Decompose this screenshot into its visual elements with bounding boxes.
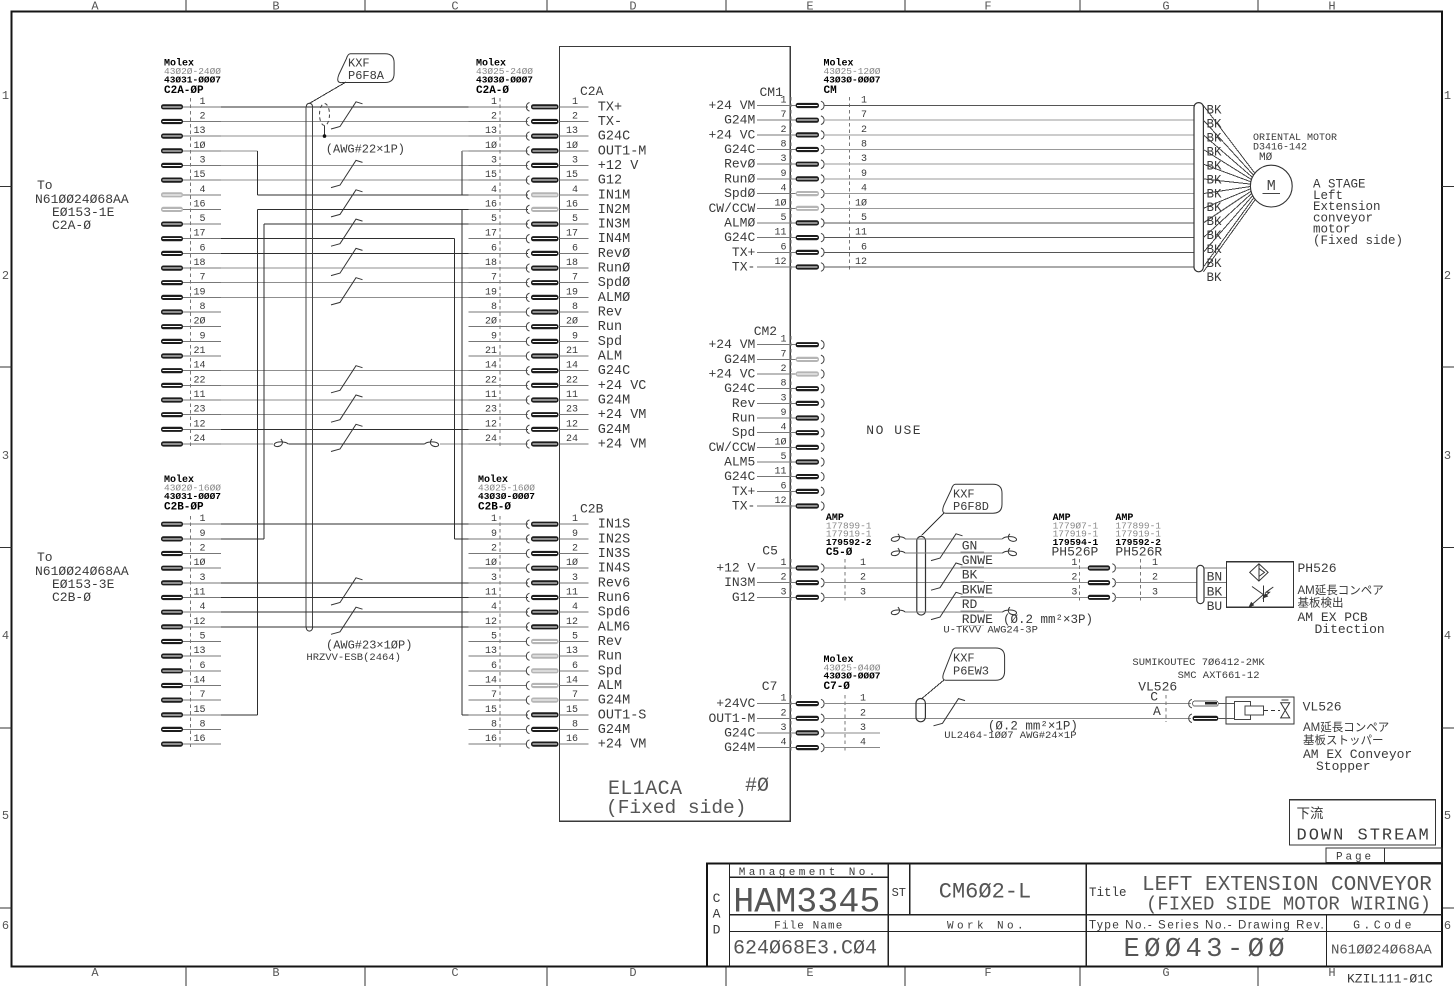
- svg-text:11: 11: [774, 228, 786, 239]
- wire C2A pin 12: [221, 428, 528, 430]
- svg-text:24: 24: [193, 434, 205, 445]
- connector CM2 pin 9 contact: [796, 415, 819, 420]
- svg-text:1: 1: [572, 514, 578, 525]
- wire C2A pin 10 with detour: [221, 150, 257, 152]
- wire stub C2B-0P pin 10: [183, 567, 221, 569]
- connector C2A-0P pin 20 contact: [161, 324, 183, 329]
- svg-text:+24 VM: +24 VM: [598, 738, 647, 753]
- svg-text:BK: BK: [1207, 243, 1223, 257]
- box pin C2A 9 stub: [560, 340, 589, 342]
- motor cable wire 3: [823, 163, 1194, 165]
- long vertical wire x=462 C2A16 to C2B15: [461, 209, 463, 714]
- svg-text:G24M: G24M: [724, 740, 755, 755]
- svg-text:3: 3: [572, 155, 578, 166]
- svg-text:BK: BK: [1207, 201, 1223, 215]
- svg-text:Ditection: Ditection: [1315, 622, 1385, 637]
- wire stub C2B-0 pin 13: [468, 655, 527, 657]
- motor cable wire 5: [823, 222, 1194, 224]
- connector C2A-0 pin 10 contact: [526, 147, 529, 156]
- svg-text:18: 18: [485, 258, 497, 269]
- wire stub C2A-0P pin 2: [183, 121, 221, 123]
- svg-text:1: 1: [780, 558, 786, 569]
- wire C2A pin 15: [221, 179, 528, 181]
- wire C5 pin 2 to PH526P: [823, 582, 1087, 584]
- svg-text:CM6Ø2-L: CM6Ø2-L: [939, 880, 1031, 905]
- connector C2B-0P pin 9 contact: [161, 536, 183, 541]
- connector C2B-0P pin 4 contact: [161, 610, 183, 615]
- box pin C2A 4 stub: [560, 194, 589, 196]
- svg-text:43Ø3Ø-ØØØ7: 43Ø3Ø-ØØØ7: [476, 75, 533, 86]
- wire stub C2A-0P pin 13: [183, 135, 221, 137]
- box pin C2A 7 stub: [560, 282, 589, 284]
- wire stub C2B-0P pin 2: [183, 553, 221, 555]
- callout KXF P6EW3: [943, 648, 1005, 680]
- svg-text:5: 5: [780, 452, 786, 463]
- wire C2A pin 6: [221, 252, 528, 254]
- svg-text:CW/CCW: CW/CCW: [708, 440, 755, 455]
- connector C2B-0P pin 10 contact: [161, 566, 183, 571]
- connector C2A-0P pin 9 contact: [161, 339, 183, 344]
- svg-text:IN3M: IN3M: [724, 575, 755, 590]
- svg-text:3: 3: [491, 155, 497, 166]
- svg-text:7: 7: [491, 690, 497, 701]
- svg-text:BK: BK: [1207, 257, 1223, 271]
- svg-text:(Fixed side): (Fixed side): [606, 797, 746, 819]
- wire stub C2A-0 pin 20: [468, 326, 527, 328]
- box pin C2A 14 stub: [560, 370, 589, 372]
- connector C2A-0 pin 9 contact: [526, 337, 529, 346]
- wire stub C2A-0 pin 19: [468, 296, 527, 298]
- connector C2B-0 pin 14 contact: [526, 681, 529, 690]
- title block frame: [707, 864, 1442, 967]
- connector C2A-0P pin 1 contact: [161, 104, 183, 109]
- wire C2A pin 16: [257, 208, 528, 210]
- svg-text:TX+: TX+: [732, 484, 756, 499]
- svg-text:+12 V: +12 V: [716, 561, 755, 576]
- svg-text:16: 16: [566, 199, 578, 210]
- connector C2B-0P pin 3 contact: [161, 580, 183, 585]
- svg-text:MØ: MØ: [1259, 152, 1273, 164]
- wire stub C2A-0 pin 2: [468, 121, 527, 123]
- long vertical wire x=454.5 C2A17 to C2B9: [454, 239, 456, 539]
- junction dot on pin13 wire: [323, 134, 327, 138]
- svg-text:+24 VC: +24 VC: [598, 379, 647, 394]
- svg-text:3: 3: [1071, 587, 1077, 598]
- connector CM1 dashed pin line: [790, 97, 792, 270]
- svg-text:ST: ST: [892, 886, 906, 900]
- motor cable wire 10: [823, 207, 1194, 209]
- svg-text:4: 4: [780, 184, 786, 195]
- wire stub C2B-0 pin 14: [468, 685, 527, 687]
- wire stub C2B-0P pin 7: [183, 699, 221, 701]
- wire C7 pin 4 stub: [823, 747, 880, 749]
- connector C2B-0 pin 6 contact: [526, 667, 529, 676]
- wire stub C2A-0P pin 7: [183, 282, 221, 284]
- svg-text:6: 6: [780, 242, 786, 253]
- svg-text:+24 VC: +24 VC: [708, 127, 755, 142]
- svg-text:3: 3: [860, 723, 866, 734]
- DOWN STREAM box: [1289, 800, 1435, 845]
- svg-text:15: 15: [566, 705, 578, 716]
- motor cable wire 1: [823, 105, 1194, 107]
- connector C2A-0 pin 12 contact: [526, 425, 529, 434]
- VL526 pin A contact: [1189, 714, 1192, 723]
- svg-text:43Ø31-ØØØ7: 43Ø31-ØØØ7: [164, 491, 221, 502]
- twisted pair mark pins 6/18: [331, 248, 363, 275]
- svg-text:Rev: Rev: [598, 306, 622, 321]
- svg-text:基板ストッパー: 基板ストッパー: [1303, 733, 1384, 747]
- svg-text:1Ø: 1Ø: [566, 140, 578, 152]
- wire C2A pin 4: [462, 194, 528, 196]
- leader line P6F8A: [309, 82, 346, 103]
- connector C2A-0 dashed pin line: [499, 98, 501, 447]
- svg-text:2: 2: [860, 708, 866, 719]
- svg-text:2: 2: [860, 573, 866, 584]
- svg-text:D: D: [629, 966, 636, 980]
- svg-text:+24 VM: +24 VM: [598, 408, 647, 423]
- svg-text:G12: G12: [598, 174, 622, 189]
- svg-text:1: 1: [491, 514, 497, 525]
- svg-text:6: 6: [199, 243, 205, 254]
- connector C2A-0P pin 23 contact: [161, 412, 183, 417]
- svg-text:IN4S: IN4S: [598, 562, 630, 577]
- connector C2B-0 pin 2 contact: [526, 549, 529, 558]
- svg-text:H: H: [1328, 0, 1335, 14]
- drain wire: [324, 126, 326, 137]
- wire stub C2A-0 pin 1: [468, 106, 527, 108]
- motor fan wire 12: [1203, 198, 1254, 267]
- connector C2B-0 pin 8 contact: [526, 725, 529, 734]
- svg-text:UL2464-1ØØ7 AWG#24×1P: UL2464-1ØØ7 AWG#24×1P: [944, 730, 1076, 742]
- svg-text:BK: BK: [1207, 118, 1223, 132]
- connector C2B-0P pin 5 contact: [161, 639, 183, 644]
- wire stub C2A-0P pin 8: [183, 311, 221, 313]
- svg-text:B: B: [272, 0, 279, 14]
- svg-text:12: 12: [566, 617, 578, 628]
- wire stub CM2 pin 5: [757, 461, 796, 463]
- twisted pair mark stopper cable: [934, 699, 966, 726]
- svg-text:BKWE: BKWE: [962, 583, 993, 598]
- connector C2A-0 pin 2 contact: [526, 117, 529, 126]
- svg-text:17: 17: [193, 229, 205, 240]
- connector CM2 dashed pin line: [790, 336, 792, 509]
- unused wire RDWE: [891, 607, 905, 615]
- connector CM1 pin 11 contact: [796, 235, 819, 240]
- wire stub C7 pin 2: [757, 717, 796, 719]
- wire C2A pin 24 with cable-exit hooks: [221, 443, 273, 445]
- connector C2A-0P pin 10 contact: [161, 148, 183, 153]
- valve symbol: [1281, 703, 1290, 718]
- svg-text:9: 9: [199, 331, 205, 342]
- wire stub CM2 pin 4: [757, 432, 796, 434]
- connector C2A-0P dashed pin line: [190, 98, 192, 447]
- svg-text:下流: 下流: [1297, 806, 1325, 821]
- svg-text:8: 8: [780, 140, 786, 151]
- connector C2B-0P pin 6 contact: [161, 668, 183, 673]
- svg-text:AM延長コンペア: AM延長コンペア: [1298, 584, 1384, 597]
- wire stub C2A-0P pin 11: [183, 399, 221, 401]
- svg-text:5: 5: [491, 214, 497, 225]
- wire C2A pin 2: [221, 121, 528, 123]
- svg-text:2: 2: [861, 125, 867, 136]
- svg-text:1: 1: [861, 96, 867, 107]
- title block dividers: [728, 864, 730, 967]
- wire stub C2A-0P pin 10: [183, 150, 221, 152]
- svg-text:IN2S: IN2S: [598, 532, 630, 547]
- svg-text:HRZVV-ESB(2464): HRZVV-ESB(2464): [306, 652, 401, 664]
- svg-text:43Ø3Ø-ØØØ7: 43Ø3Ø-ØØØ7: [824, 671, 881, 682]
- sensor cable shield capsule: [917, 536, 926, 615]
- svg-text:4: 4: [491, 602, 497, 613]
- box pin C2A 8 stub: [560, 311, 589, 313]
- svg-text:5: 5: [491, 632, 497, 643]
- wire stub C2A-0P pin 19: [183, 296, 221, 298]
- cable bundle lines: [305, 107, 307, 628]
- svg-text:2: 2: [780, 573, 786, 584]
- svg-text:3: 3: [491, 573, 497, 584]
- wire C5 pin 1 to PH526P: [823, 567, 1087, 569]
- svg-text:1Ø: 1Ø: [774, 436, 786, 448]
- wire stub C2A-0P pin 1: [183, 106, 221, 108]
- motor cable wire 2: [823, 134, 1194, 136]
- svg-text:3: 3: [1444, 449, 1451, 463]
- wire stub C2A-0P pin 20: [183, 326, 221, 328]
- svg-text:OUT1-M: OUT1-M: [708, 711, 755, 726]
- svg-text:IN1S: IN1S: [598, 518, 630, 533]
- wire stub C2B-0P pin 4: [183, 611, 221, 613]
- wire C2A pin 5: [264, 223, 528, 225]
- svg-text:AM延長コンペア: AM延長コンペア: [1303, 721, 1389, 734]
- svg-text:9: 9: [780, 408, 786, 419]
- box pin C2A 12 stub: [560, 428, 589, 430]
- wire stub C5 pin 3: [757, 596, 796, 598]
- connector C2A-0P pin 17 contact: [161, 236, 183, 241]
- svg-text:SMC AXT661-12: SMC AXT661-12: [1178, 670, 1260, 682]
- svg-text:7: 7: [572, 273, 578, 284]
- svg-text:6: 6: [199, 661, 205, 672]
- wire stub CM2 pin 12: [757, 505, 796, 507]
- svg-text:SpdØ: SpdØ: [598, 276, 630, 291]
- motor fan wire 7: [1203, 187, 1250, 194]
- svg-text:1: 1: [2, 89, 9, 103]
- svg-text:9: 9: [491, 331, 497, 342]
- svg-text:12: 12: [485, 419, 497, 430]
- twisted pair mark pins 12/24: [331, 424, 363, 451]
- svg-text:2: 2: [572, 112, 578, 123]
- wire stub C2A-0P pin 6: [183, 252, 221, 254]
- svg-text:GN: GN: [962, 538, 978, 553]
- svg-text:9: 9: [572, 529, 578, 540]
- motor fan wire 4: [1203, 150, 1251, 180]
- svg-text:7: 7: [861, 110, 867, 121]
- wire PH526P-PH526R pin 1: [1115, 567, 1197, 569]
- box pin C2B 6 stub: [560, 670, 589, 672]
- svg-text:Spd: Spd: [598, 664, 622, 679]
- svg-text:File Name: File Name: [774, 921, 843, 933]
- twisted pair mark sensor cable: [931, 592, 963, 619]
- wire C2A pin 1: [221, 106, 528, 108]
- connector CM dashed line: [848, 97, 850, 270]
- wire stub C2A-0P pin 24: [183, 443, 221, 445]
- svg-text:6: 6: [861, 242, 867, 253]
- svg-text:BK: BK: [1207, 145, 1223, 159]
- unused wire GNWE: [891, 548, 905, 556]
- connector CM1 pin 6 contact: [796, 250, 819, 255]
- wire stub C2B-0 pin 10: [468, 567, 527, 569]
- motor fan wire 10: [1203, 193, 1251, 237]
- svg-text:22: 22: [566, 375, 578, 386]
- wire stub C2A-0 pin 10: [468, 150, 527, 152]
- svg-text:RevØ: RevØ: [724, 157, 755, 172]
- long vertical wire x=257.4 C2A16 to C2B15: [256, 209, 258, 714]
- box pin C2A 23 stub: [560, 414, 589, 416]
- connector C2A-0 pin 5 contact: [526, 220, 529, 229]
- connector C2B-0 pin 3 contact: [526, 579, 529, 588]
- wire stub C2B-0P pin 5: [183, 641, 221, 643]
- box pin C2A 15 stub: [560, 179, 589, 181]
- wire stub CM2 pin 3: [757, 402, 796, 404]
- connector C2A-0 pin 17 contact: [526, 234, 529, 243]
- svg-text:G24M: G24M: [724, 113, 755, 128]
- wire C2B pin 4: [221, 611, 528, 613]
- svg-text:CW/CCW: CW/CCW: [708, 201, 755, 216]
- svg-text:G.Code: G.Code: [1353, 920, 1415, 933]
- svg-text:A: A: [91, 0, 99, 14]
- svg-text:11: 11: [855, 228, 867, 239]
- box pin C2B 3 stub: [560, 582, 589, 584]
- svg-text:C: C: [713, 891, 721, 906]
- svg-text:11: 11: [485, 390, 497, 401]
- wire stub C2B-0P pin 3: [183, 582, 221, 584]
- twisted pair mark pins 14/22: [331, 366, 363, 393]
- svg-text:9: 9: [572, 331, 578, 342]
- wire stub C2B-0 pin 15: [468, 714, 527, 716]
- svg-text:BK: BK: [1207, 229, 1223, 243]
- svg-text:7: 7: [780, 349, 786, 360]
- svg-text:1: 1: [491, 97, 497, 108]
- wire stub C2B-0P pin 16: [183, 743, 221, 745]
- motor cable wire 12: [823, 266, 1194, 268]
- svg-text:9: 9: [780, 169, 786, 180]
- svg-text:43Ø3Ø-ØØØ7: 43Ø3Ø-ØØØ7: [478, 491, 535, 502]
- svg-text:4: 4: [572, 185, 578, 196]
- svg-text:16: 16: [485, 199, 497, 210]
- svg-text:1: 1: [780, 694, 786, 705]
- svg-text:21: 21: [485, 346, 497, 357]
- cable bundle top arc: [306, 103, 312, 107]
- svg-text:4: 4: [780, 423, 786, 434]
- svg-text:CM2: CM2: [754, 324, 777, 339]
- connector C2A-0 pin 7 contact: [526, 278, 529, 287]
- wire stub C2B-0P pin 6: [183, 670, 221, 672]
- svg-text:C2A-ØP: C2A-ØP: [164, 85, 204, 97]
- connector C2A-0P pin 7 contact: [161, 280, 183, 285]
- svg-text:To: To: [37, 550, 53, 565]
- connector C2A-0 pin 6 contact: [526, 249, 529, 258]
- svg-text:C2A-Ø: C2A-Ø: [52, 218, 91, 233]
- connector C2A-0P pin 13 contact: [161, 134, 183, 139]
- wire stub CM2 pin 8: [757, 388, 796, 390]
- connector C2B-0 pin 4 contact: [526, 608, 529, 617]
- connector C2A-0P pin 21 contact: [161, 353, 183, 358]
- svg-text:1: 1: [780, 335, 786, 346]
- svg-text:TX+: TX+: [598, 100, 622, 115]
- svg-text:7: 7: [780, 110, 786, 121]
- svg-text:C2A-Ø: C2A-Ø: [476, 85, 509, 97]
- svg-text:624Ø68E3.CØ4: 624Ø68E3.CØ4: [733, 938, 877, 961]
- svg-text:ALM5: ALM5: [724, 455, 755, 470]
- wire C2A pin 18: [221, 267, 528, 269]
- svg-text:1Ø: 1Ø: [855, 197, 867, 209]
- connector C2A-0P pin 3 contact: [161, 163, 183, 168]
- box pin C2B 4 stub: [560, 611, 589, 613]
- connector C7 pin 4 contact: [796, 745, 819, 750]
- svg-text:21: 21: [193, 346, 205, 357]
- wire C2A pin 17: [221, 238, 455, 240]
- svg-text:DOWN STREAM: DOWN STREAM: [1297, 827, 1431, 846]
- connector C2A-0P pin 12 contact: [161, 427, 183, 432]
- photo transistor symbol: [1263, 586, 1265, 603]
- svg-text:A: A: [1153, 704, 1161, 719]
- box pin C2A 22 stub: [560, 384, 589, 386]
- wire stub CM1 pin 7: [757, 119, 796, 121]
- svg-text:3: 3: [1152, 587, 1158, 598]
- svg-text:14: 14: [566, 361, 578, 372]
- svg-text:2Ø: 2Ø: [193, 316, 205, 328]
- svg-text:ALM: ALM: [598, 679, 622, 694]
- svg-text:14: 14: [193, 361, 205, 372]
- connector C2B-0 pin 7 contact: [526, 696, 529, 705]
- connector C2A-0P pin 11 contact: [161, 397, 183, 402]
- connector C2A-0P pin 5 contact: [161, 222, 183, 227]
- svg-text:F: F: [984, 966, 991, 980]
- leader line P6F8D: [922, 513, 945, 535]
- wire stub C7 pin 4: [757, 747, 796, 749]
- svg-text:D: D: [713, 923, 721, 938]
- svg-text:8: 8: [780, 379, 786, 390]
- box pin C2A 13 stub: [560, 135, 589, 137]
- svg-text:IN2M: IN2M: [598, 203, 630, 218]
- svg-text:2: 2: [1444, 269, 1451, 283]
- motor cable wire 6: [823, 251, 1194, 253]
- svg-text:15: 15: [566, 170, 578, 181]
- wire stub C2B-0 pin 1: [468, 523, 527, 525]
- wire stub C2A-0P pin 15: [183, 179, 221, 181]
- svg-text:5: 5: [780, 213, 786, 224]
- svg-text:12: 12: [566, 419, 578, 430]
- svg-text:C2A: C2A: [580, 84, 604, 99]
- svg-text:16: 16: [193, 199, 205, 210]
- svg-text:1: 1: [572, 97, 578, 108]
- svg-text:G: G: [1162, 0, 1169, 14]
- connector C2A-0 pin 22 contact: [526, 381, 529, 390]
- svg-text:12: 12: [774, 257, 786, 268]
- box pin C2A 19 stub: [560, 296, 589, 298]
- svg-text:RunØ: RunØ: [724, 171, 755, 186]
- svg-text:ALMØ: ALMØ: [598, 291, 630, 306]
- svg-text:8: 8: [491, 719, 497, 730]
- svg-text:6: 6: [491, 661, 497, 672]
- svg-text:16: 16: [566, 734, 578, 745]
- svg-text:2Ø: 2Ø: [485, 316, 497, 328]
- wire stub C2A-0 pin 3: [468, 164, 527, 166]
- svg-text:9: 9: [491, 529, 497, 540]
- wire stub C2A-0 pin 22: [468, 384, 527, 386]
- box pin C2A 18 stub: [560, 267, 589, 269]
- svg-text:8: 8: [199, 719, 205, 730]
- wire stub C2A-0P pin 14: [183, 370, 221, 372]
- svg-text:TX-: TX-: [732, 499, 755, 514]
